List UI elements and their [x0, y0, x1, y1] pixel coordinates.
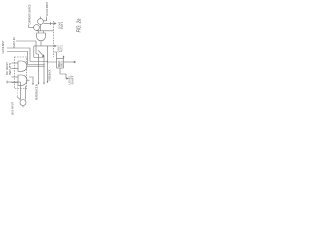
svg-text:CURRENT SOURCE: CURRENT SOURCE: [27, 4, 31, 24]
wire label lead down: [28, 25, 30, 28]
transistor C3 (bottom circle): [20, 100, 26, 106]
wire bus to box B1: [48, 46, 57, 62]
svg-text:DATA IN: DATA IN: [12, 37, 16, 47]
junction dots: [44, 64, 45, 65]
wire G1 output bus: [33, 46, 35, 58]
wire left vertical to current source: [20, 82, 22, 99]
wire bus step C: [30, 62, 48, 83]
wire C3 bottom stub: [22, 106, 24, 108]
arrow A2 out of dashed box: [34, 45, 55, 47]
svg-text:SHIFT: SHIFT: [71, 75, 75, 84]
dashed box around gates G2,G3: [14, 57, 26, 89]
wire left input H3: [7, 52, 28, 65]
wire G2 inputs: [12, 62, 19, 64]
wire B1 bottom to label: [60, 68, 67, 78]
dotted vertical aux: [17, 85, 19, 97]
svg-text:PUT 1: PUT 1: [60, 21, 64, 29]
gate G2 (AND gate pointing right): [18, 61, 27, 71]
current source arrow into C3: [17, 96, 21, 100]
svg-text:FIG. 2a: FIG. 2a: [77, 19, 83, 33]
svg-text:FEEDBACK: FEEDBACK: [48, 69, 52, 80]
transistor Q2 (lower circle): [34, 25, 40, 31]
gate G3 (AND gate pointing right): [18, 75, 27, 85]
wire clock label lead: [44, 17, 47, 21]
svg-text:REFERENCE IN: REFERENCE IN: [35, 84, 39, 100]
wire G3 output: [27, 79, 30, 81]
svg-text:CLOCK INPUT: CLOCK INPUT: [1, 40, 5, 53]
svg-text:BIAS INPUT: BIAS INPUT: [11, 102, 15, 115]
tick on A1 wire: [50, 22, 52, 25]
box B1: [57, 59, 64, 68]
bus tip arrowheads: [38, 83, 40, 85]
wire Q1 top stub: [40, 17, 42, 19]
wire bus step B: [34, 58, 44, 84]
svg-text:CLOCK INPUT: CLOCK INPUT: [46, 2, 49, 16]
wire G3 inputs: [12, 76, 19, 78]
arrow A4 (diagonal, crossing dashed boundary): [38, 50, 43, 56]
arrow up at B1 top: [63, 57, 65, 59]
tick on bias wire: [6, 81, 8, 84]
wire B1 output right: [64, 61, 75, 63]
wire right vertical to current source: [25, 86, 27, 100]
wire G1 output: [40, 41, 42, 46]
wire left input H1: [16, 41, 36, 54]
gate G1 (AND gate pointing down): [37, 33, 46, 41]
wire bias feed horizontal: [7, 81, 21, 83]
wire G2 output: [27, 65, 44, 67]
wire Q1 output to arrow A1: [43, 23, 55, 25]
wire bus step D: [28, 64, 45, 66]
dashed box D1 right edge: [53, 21, 55, 57]
svg-text:SEL: SEL: [60, 60, 64, 67]
transistor Q1 (upper circle): [38, 19, 44, 25]
wire bus step A: [36, 54, 39, 84]
wire Q2 base lead: [29, 27, 34, 29]
arrowhead A1: [54, 22, 56, 24]
wire left input H2: [7, 48, 30, 62]
svg-text:INPUTS: INPUTS: [8, 63, 12, 75]
wire Q1/Q2 to gate G1: [40, 24, 42, 30]
wire into B1 top: [54, 52, 57, 59]
wire corner below G3: [29, 77, 33, 84]
svg-text:PUT 2: PUT 2: [59, 45, 63, 53]
